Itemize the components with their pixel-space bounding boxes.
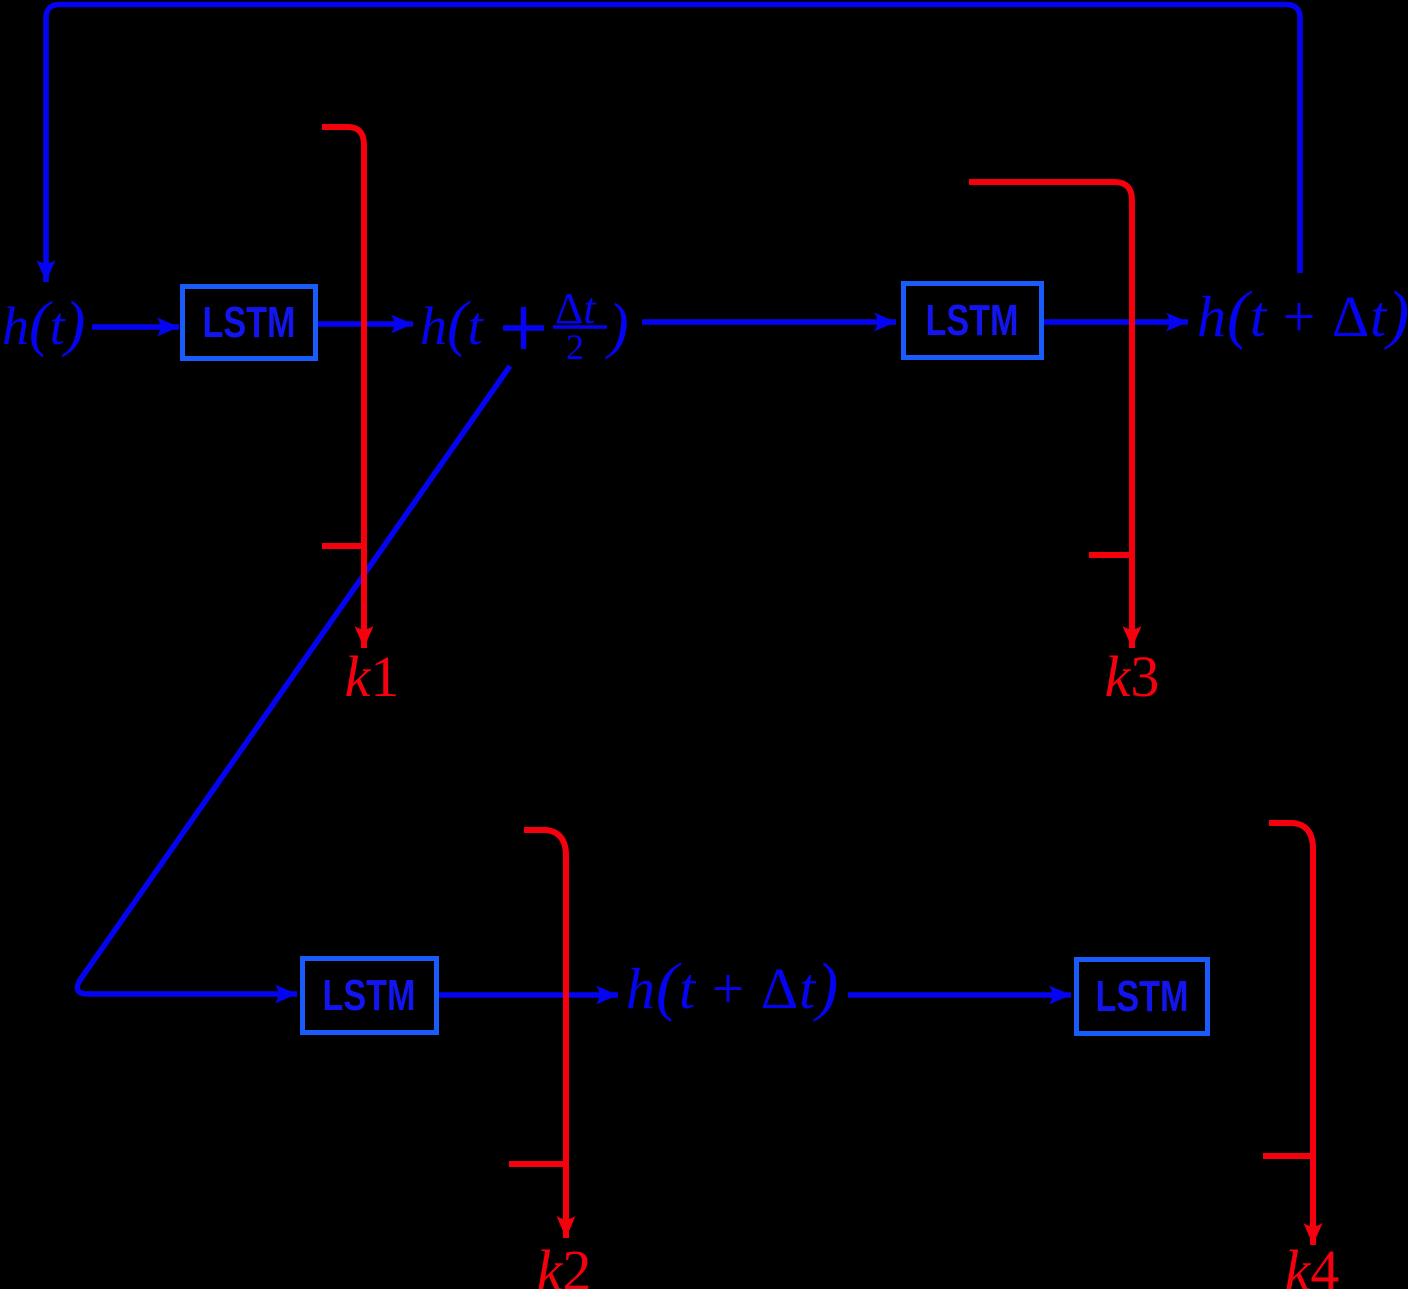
wire: h(t+dt/2) to LSTM2 — [642, 319, 896, 325]
wire: diagonal from h(t+dt/2) down to second row — [77, 366, 510, 994]
svg-text:LSTM: LSTM — [926, 296, 1019, 345]
block LSTM U3 — [303, 959, 437, 1033]
svg-text:h(t + Δt): h(t + Δt) — [1197, 278, 1408, 351]
svg-text:k2: k2 — [537, 1238, 592, 1289]
svg-text:2: 2 — [566, 327, 584, 367]
svg-text:LSTM: LSTM — [323, 971, 416, 1020]
wire: LSTM2 to h(t+dt) — [1044, 319, 1188, 325]
block LSTM U4 — [1077, 960, 1208, 1034]
block LSTM U1 — [183, 287, 316, 359]
tap k4: red bracket right of LSTM4 down to k4 — [1263, 823, 1339, 1289]
tap k2: red bracket from LSTM3 output down to k2 — [509, 830, 591, 1289]
svg-text:k3: k3 — [1105, 644, 1160, 709]
svg-text:h(t: h(t — [420, 290, 485, 358]
svg-text:LSTM: LSTM — [1096, 972, 1189, 1021]
wire: h(t+dt) bottom to LSTM4 — [848, 992, 1071, 998]
wire: feedback loop from h(t+dt) over the top back down to h(t) — [46, 5, 1300, 283]
wire: h(t) to LSTM1 — [92, 324, 179, 330]
node h(t+dt/2) — [420, 284, 629, 367]
svg-text:k4: k4 — [1285, 1238, 1340, 1289]
svg-text:k1: k1 — [345, 644, 400, 709]
tap k1: red bracket from LSTM1 output down to k1 — [322, 127, 399, 709]
svg-text:): ) — [605, 292, 629, 360]
svg-text:h(t + Δt): h(t + Δt) — [626, 950, 839, 1023]
wire: LSTM1 to h(t+dt/2) — [318, 321, 413, 327]
wire: LSTM3 to h(t+dt) bottom — [439, 992, 618, 998]
svg-text:h(t): h(t) — [2, 290, 85, 358]
svg-text:LSTM: LSTM — [203, 298, 296, 347]
tap k3: red bracket from LSTM2 output down to k3 — [969, 182, 1159, 709]
block LSTM U2 — [904, 284, 1042, 358]
